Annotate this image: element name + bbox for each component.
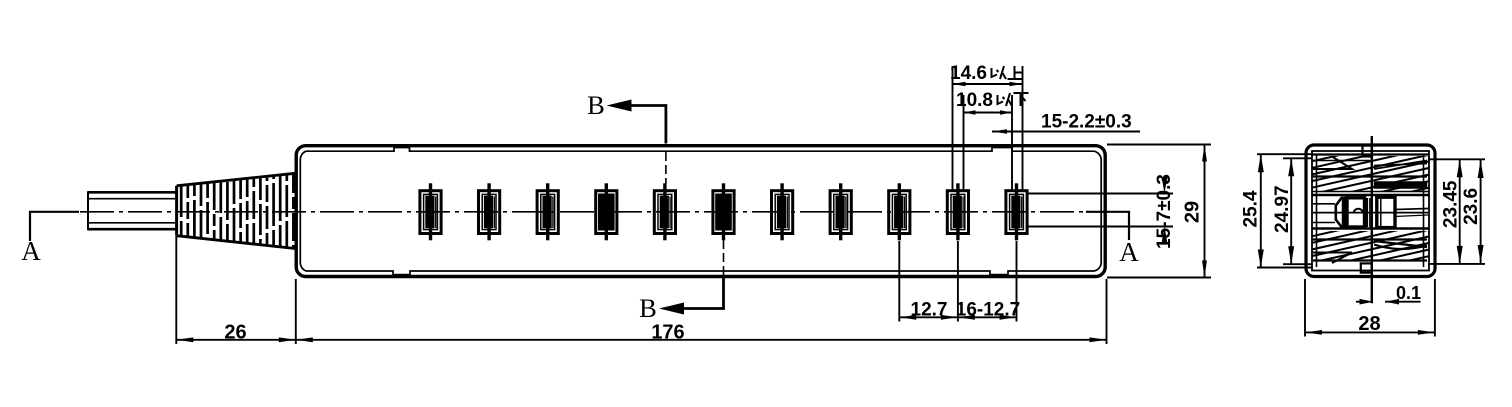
dimension 176 [296,279,1107,344]
dimension 14.6 or-more (top) [953,66,1023,190]
contact slot 5 [654,183,675,240]
dimension 24.97 (rotated) [1283,158,1312,264]
dimension 28 [1305,279,1435,337]
contact slot 8 [830,183,851,240]
dimension 29 (body height, rotated) [1107,145,1211,278]
svg-text:28: 28 [1358,313,1380,335]
svg-text:29: 29 [1182,201,1204,223]
contact slot 10 [947,183,968,240]
contact slot 11 [1006,183,1027,240]
end view bottom key tab [1361,263,1372,272]
svg-text:B: B [639,293,657,323]
dimension 23.6 (rotated) [1480,160,1482,263]
dimension 12.7 (bottom right) [899,241,1016,322]
svg-text:15-7±0.3: 15-7±0.3 [1154,174,1175,249]
svg-text:26: 26 [224,322,246,344]
svg-text:B: B [587,90,605,120]
svg-text:24.97: 24.97 [1272,185,1293,233]
end view horizontal structure lines [1312,155,1429,264]
svg-text:A: A [1119,237,1139,267]
svg-text:23.6: 23.6 [1461,188,1482,225]
dimension 15-7±0.3 (slot height, rotated) [1027,194,1173,227]
svg-text:12.7: 12.7 [911,300,948,321]
contact slot 7 [772,183,793,240]
dimension 10.8 or-less [964,95,1013,190]
end view top key tab [1363,146,1373,157]
contact slot 2 [479,183,500,240]
svg-text:16-12.7: 16-12.7 [956,300,1020,321]
contact slot 3 [537,183,558,240]
section A-A right marker [1086,212,1139,267]
svg-text:A: A [21,236,41,266]
svg-text:0.1: 0.1 [1396,283,1421,303]
section A-A left marker [21,212,79,266]
svg-text:23.45: 23.45 [1441,180,1462,228]
contact slot 6 [713,183,734,240]
contact slot 1 [420,183,441,240]
svg-text:176: 176 [651,322,684,344]
section B-B bottom marker [639,240,723,323]
end view outline [1306,145,1435,277]
svg-text:15-2.2±0.3: 15-2.2±0.3 [1041,112,1132,133]
dimension 25.4 (rotated) [1257,154,1312,267]
cable [88,191,177,230]
dimension 23.45 (rotated) [1428,159,1485,264]
end view central key cluster [1336,197,1395,227]
section B-B top marker [587,90,666,184]
end view centerline vertical [1371,136,1373,303]
contact slot 4 [596,183,617,240]
centerline [80,211,1086,213]
end view centerline horizontal [1313,212,1428,214]
dimension 0.1 [1356,301,1421,303]
main body outline [296,146,1105,277]
svg-text:14.6: 14.6 [950,63,987,84]
contact slot 9 [889,183,910,240]
body inner line with notches [300,148,1101,275]
end view left/right column lines [1317,155,1424,268]
dimension 26 [176,236,295,344]
svg-text:10.8: 10.8 [956,90,993,111]
svg-text:25.4: 25.4 [1241,190,1262,227]
leader 15-2.2±0.3 [992,131,1140,133]
